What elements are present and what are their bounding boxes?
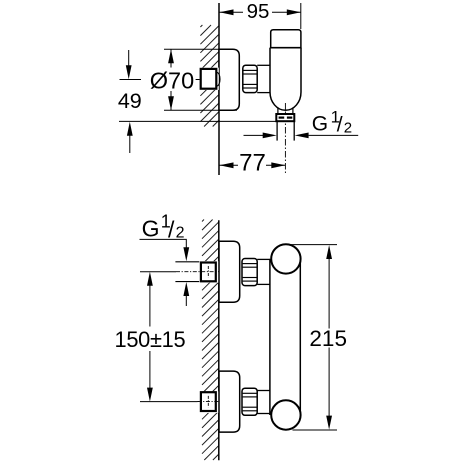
stub between nut and tube (top connection) bbox=[257, 258, 270, 260]
outlet centerline (vertical dash-dot) bbox=[284, 103, 286, 174]
vertical body tube bbox=[269, 259, 271, 415]
dimension 77: dim line bbox=[220, 164, 239, 166]
bottom ball end bbox=[271, 400, 300, 429]
wall hatching (bottom view) bbox=[202, 220, 204, 222]
wall face line (top view) bbox=[218, 3, 220, 175]
escutcheon rosette (bottom view, bottom connection) bbox=[219, 371, 240, 432]
inlet stub between nut and valve body bbox=[257, 64, 270, 66]
bottom fitting centerline over square bbox=[198, 401, 219, 403]
white clearance for inlet fitting through wall bbox=[199, 68, 219, 90]
outlet flange (thick) bbox=[276, 114, 294, 121]
dimension 150±15: bottom extension/centerline bbox=[140, 401, 198, 403]
wall hatching (top view) bbox=[200, 25, 202, 27]
svg-text:/: / bbox=[168, 216, 175, 242]
dimension 215: dim line + arrows bbox=[328, 258, 330, 329]
svg-text:G: G bbox=[142, 215, 160, 241]
svg-text:G: G bbox=[312, 113, 328, 136]
svg-text:215: 215 bbox=[309, 326, 347, 351]
svg-text:/: / bbox=[337, 113, 343, 136]
escutcheon rosette (top view) bbox=[219, 49, 239, 110]
dimension 77: right arrow bbox=[271, 162, 285, 168]
dimension 49: top arrow (pointing down) bbox=[128, 50, 130, 67]
white clearance for union fitting through wall (top connection) bbox=[199, 261, 219, 283]
dimension 49: top extension line (inlet centerline level) bbox=[120, 79, 142, 81]
svg-text:49: 49 bbox=[118, 89, 142, 113]
G 1/2 leader line with arrow bbox=[140, 239, 187, 248]
inlet union fitting square (top view) bbox=[201, 69, 217, 89]
dimension 49: bottom extension line (outlet level) bbox=[119, 120, 277, 122]
svg-text:Ø70: Ø70 bbox=[150, 68, 194, 94]
svg-text:150±15: 150±15 bbox=[115, 327, 186, 352]
dimension Ø70: bottom extension line bbox=[164, 109, 237, 111]
G 1/2 thread dimension arrows (top view) bbox=[244, 134, 264, 136]
hex nut (bottom view, top connection) bbox=[242, 259, 257, 286]
dimension 150±15: top extension/centerline bbox=[140, 271, 176, 273]
dimension 95: extension line at valve cap bbox=[300, 3, 302, 29]
dimension 215: top extension line bbox=[290, 244, 338, 246]
valve push-button cap bbox=[271, 30, 301, 48]
escutcheon rosette (bottom view, top connection) bbox=[219, 241, 240, 302]
dimension 77: left arrow bbox=[220, 162, 234, 168]
dimension 150±15: dim line + arrows bbox=[149, 285, 151, 327]
dimension 95: left arrow bbox=[220, 9, 234, 15]
outlet neck bbox=[277, 108, 279, 114]
cap/body separation line bbox=[270, 47, 301, 49]
dimension 49: bottom arrow (pointing up) bbox=[127, 122, 133, 136]
inlet centerline tick bbox=[196, 79, 200, 81]
outlet G1/2 threaded pipe bbox=[276, 121, 278, 140]
top ball end bbox=[271, 244, 300, 273]
svg-text:77: 77 bbox=[239, 150, 266, 177]
valve body (side view, rounded bottom) bbox=[270, 48, 301, 111]
svg-text:95: 95 bbox=[247, 0, 270, 23]
dimension Ø70: dim line + arrows bbox=[170, 49, 172, 67]
dimension 95: right arrow bbox=[287, 9, 301, 15]
dimension 215: bottom extension line bbox=[293, 429, 338, 431]
svg-text:2: 2 bbox=[176, 224, 185, 241]
white clearance for union fitting through wall (bottom connection) bbox=[199, 391, 219, 413]
union fitting square (bottom view, top connection) bbox=[201, 263, 216, 282]
dimension Ø70: top extension line bbox=[164, 48, 219, 50]
hex nut (top view) bbox=[243, 65, 257, 92]
svg-text:2: 2 bbox=[344, 119, 352, 136]
inlet fitting bump toward wall face bbox=[217, 72, 220, 86]
thread lower arrow (pointing up) bbox=[183, 282, 189, 296]
supply stub pipe through wall (top connection) bbox=[175, 261, 200, 263]
wall face line (bottom view) bbox=[218, 220, 220, 460]
dimension 77: text bbox=[239, 154, 266, 172]
union fitting square (bottom view, bottom connection) bbox=[201, 392, 216, 411]
stub between nut and tube (bottom connection) bbox=[257, 390, 270, 392]
dimension 95: dim line bbox=[220, 11, 244, 13]
hex nut (bottom view, bottom connection) bbox=[242, 388, 257, 415]
